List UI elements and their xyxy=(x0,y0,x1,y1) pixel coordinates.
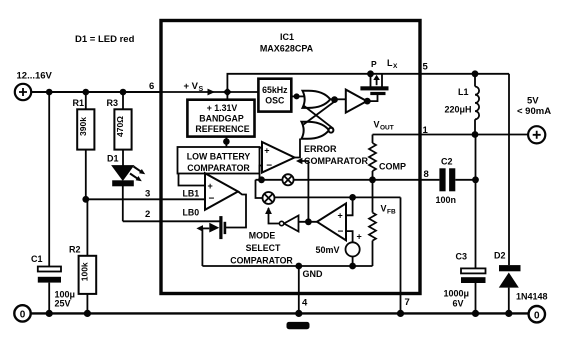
capacitor C3 1000u 6V electrolytic xyxy=(444,252,486,314)
Vout label xyxy=(374,120,394,132)
svg-text:ERROR: ERROR xyxy=(304,144,337,154)
svg-text:BANDGAP: BANDGAP xyxy=(199,114,244,124)
node junction C3 rail xyxy=(472,310,479,317)
bandgap reference box xyxy=(187,100,254,137)
resistor R2 100k xyxy=(69,199,96,313)
svg-text:SELECT: SELECT xyxy=(246,243,281,253)
svg-text:V: V xyxy=(374,120,380,130)
wire +Vs to OSC xyxy=(227,91,258,93)
svg-text:COMPARATOR: COMPARATOR xyxy=(304,156,368,166)
svg-text:D2: D2 xyxy=(494,251,506,261)
LED D1 xyxy=(107,154,134,222)
wire internal gnd bus xyxy=(202,265,372,267)
svg-text:4: 4 xyxy=(302,298,308,309)
inverter triangle (points left) xyxy=(279,216,298,232)
svg-text:7: 7 xyxy=(405,297,410,308)
resistor VFB divider lower xyxy=(369,213,376,266)
node junction COMP pin8 xyxy=(369,176,376,183)
node junction G1 output xyxy=(331,96,338,103)
wire minus node down to switch S2 xyxy=(256,180,263,198)
svg-text:+ V: + V xyxy=(184,81,199,92)
wire internal gnd to pin 4 xyxy=(298,266,300,313)
node junction buffer output xyxy=(364,98,371,105)
capacitor C2 100n xyxy=(421,157,476,206)
svg-text:+: + xyxy=(208,181,213,191)
svg-text:GND: GND xyxy=(303,269,324,279)
svg-text:C3: C3 xyxy=(456,252,468,262)
node junction inverter input xyxy=(305,218,312,225)
node junction OSC output xyxy=(294,93,300,99)
IC1 label xyxy=(260,32,314,54)
svg-text:X: X xyxy=(393,63,398,70)
wire Lx pin5 corner to D2 xyxy=(508,74,510,265)
wire FB pin 7 drop xyxy=(400,197,402,313)
wire OSC to gate G1 xyxy=(291,95,304,97)
svg-text:+: + xyxy=(357,232,362,242)
wire Vout branch down to C3 xyxy=(475,135,477,269)
switch S1 (circle-X) xyxy=(282,174,293,185)
node junction error minus xyxy=(258,176,265,183)
gate G1 top (SR latch) xyxy=(303,91,331,108)
svg-text:−: − xyxy=(209,194,215,205)
svg-text:IC1: IC1 xyxy=(280,32,294,42)
node junction P source xyxy=(367,70,374,77)
svg-text:+: + xyxy=(264,145,269,155)
svg-text:+: + xyxy=(338,210,343,220)
svg-text:220μH: 220μH xyxy=(445,105,472,115)
wire bandgap to low battery box xyxy=(225,137,227,147)
node junction C2 out xyxy=(472,176,479,183)
wire mode feedback to error comparator xyxy=(296,158,308,222)
svg-text:470Ω: 470Ω xyxy=(115,116,125,137)
wire mode + input from FB rail xyxy=(346,197,353,215)
wire error comparator - input link xyxy=(260,166,263,180)
svg-text:12...16V: 12...16V xyxy=(17,71,53,82)
svg-text:2: 2 xyxy=(145,209,150,220)
wire pin 2 net (LED cathode to LB0 gate) xyxy=(123,220,220,222)
wire ground rail xyxy=(31,312,529,314)
transistor Q2 P-MOSFET xyxy=(360,74,388,95)
node junction R1/R2/pin3 xyxy=(82,196,89,203)
svg-text:50mV: 50mV xyxy=(316,245,340,255)
svg-text:LB1: LB1 xyxy=(183,189,200,199)
source V1 50mV xyxy=(316,232,362,267)
svg-text:+ 1.31V: + 1.31V xyxy=(207,103,238,113)
note D1 = LED red xyxy=(75,34,135,45)
svg-text:25V: 25V xyxy=(55,299,71,309)
wire mode output to inverter xyxy=(299,221,318,223)
transistor Q1 LBO open-drain (gate bar, plate, source diode) xyxy=(196,216,226,266)
svg-text:LOW BATTERY: LOW BATTERY xyxy=(187,151,251,161)
svg-text:−: − xyxy=(266,161,272,172)
svg-text:0: 0 xyxy=(534,310,540,321)
wire C1 feed xyxy=(48,92,50,267)
wire G1 output to buffer xyxy=(330,98,346,100)
svg-text:FB: FB xyxy=(387,209,396,216)
wire +Vs to bandgap xyxy=(226,92,228,100)
node junction FB tap xyxy=(349,194,356,201)
svg-text:1N4148: 1N4148 xyxy=(516,292,548,302)
wire low battery box top to error comparator + input xyxy=(260,147,263,149)
svg-text:COMPARATOR: COMPARATOR xyxy=(187,163,250,173)
resistor comp divider upper xyxy=(369,135,376,181)
svg-text:D1 = LED red: D1 = LED red xyxy=(75,34,135,45)
svg-text:390k: 390k xyxy=(78,117,88,136)
svg-text:R3: R3 xyxy=(107,98,119,108)
wire Vout pin 1 xyxy=(373,134,529,136)
mode select comparator op-amp (points left) xyxy=(317,203,346,240)
wire cross couple G2 out to G1 in xyxy=(304,106,334,129)
node junction gnd bus xyxy=(295,263,302,270)
svg-text:LB0: LB0 xyxy=(183,208,200,218)
svg-text:L1: L1 xyxy=(458,87,469,97)
svg-text:COMPARATOR: COMPARATOR xyxy=(230,256,293,266)
svg-text:6V: 6V xyxy=(453,299,464,309)
error comparator op-amp xyxy=(262,142,295,173)
svg-text:MODE: MODE xyxy=(249,231,276,241)
diode D2 1N4148 xyxy=(494,251,548,314)
node junction L1 top xyxy=(472,70,479,77)
svg-text:1000μ: 1000μ xyxy=(444,289,470,299)
wire pin 3 net (R1/R2 to LB1) xyxy=(86,198,205,200)
VFB label xyxy=(381,204,396,216)
node junction L1 bottom xyxy=(472,131,479,138)
svg-text:65kHz: 65kHz xyxy=(262,85,288,95)
wire inverter to S2 with arrow xyxy=(265,207,279,224)
svg-text:8: 8 xyxy=(424,169,429,180)
wire mode - input to 50mV source xyxy=(346,231,353,242)
buffer driver triangle xyxy=(346,90,367,113)
switch S2 (circle-X) xyxy=(263,192,275,204)
svg-text:MAX628CPA: MAX628CPA xyxy=(260,44,314,54)
inductor L1 220uH xyxy=(445,74,480,135)
wire +Vs riser and top rail to pin 5 xyxy=(227,74,509,92)
svg-text:3: 3 xyxy=(145,189,150,200)
node junction pin4 rail xyxy=(295,310,302,317)
svg-text:P: P xyxy=(371,59,377,69)
node junction R1 tap xyxy=(83,89,90,96)
capacitor C1 100u 25V electrolytic xyxy=(31,254,75,313)
wire cross couple G1 out to G2 in xyxy=(304,102,335,125)
wire +Vs entry arrow xyxy=(161,81,227,95)
Lx label xyxy=(387,58,398,70)
node junction pin7 rail xyxy=(397,310,404,317)
svg-text:100k: 100k xyxy=(79,262,89,281)
terminal input + 12...16V xyxy=(15,71,53,101)
node junction R3 tap xyxy=(120,89,127,96)
error comparator label xyxy=(304,144,368,166)
svg-text:S: S xyxy=(199,86,204,93)
svg-text:C1: C1 xyxy=(31,254,43,264)
node junction C1/rail xyxy=(46,310,53,317)
wire COMP vertical link xyxy=(372,180,374,213)
terminal 0V right xyxy=(529,306,545,322)
wire LB comparator output to LBO drain xyxy=(226,192,246,228)
svg-text:R2: R2 xyxy=(69,245,81,255)
node +Vs junction xyxy=(223,88,231,96)
svg-text:6: 6 xyxy=(149,81,154,92)
svg-text:OSC: OSC xyxy=(265,95,285,105)
resistor R1 390k xyxy=(73,92,95,199)
mode select comparator label xyxy=(230,231,293,266)
wire error comparator minus node to switch S1 xyxy=(256,179,283,181)
svg-text:V: V xyxy=(381,204,387,214)
svg-text:D1: D1 xyxy=(107,154,119,164)
terminal 0V left xyxy=(14,305,30,321)
ground symbol xyxy=(287,322,310,329)
svg-text:5: 5 xyxy=(423,62,429,73)
low battery comparator label box xyxy=(178,147,260,174)
svg-text:1: 1 xyxy=(423,125,429,136)
LED D1 emission arrows xyxy=(130,167,145,182)
node junction bandgap drop xyxy=(223,138,230,145)
svg-text:REFERENCE: REFERENCE xyxy=(195,124,249,134)
oscillator box 65kHz OSC xyxy=(258,79,291,112)
svg-text:100n: 100n xyxy=(436,195,457,205)
svg-text:0: 0 xyxy=(20,310,26,321)
terminal output + 5V xyxy=(517,96,551,144)
svg-text:OUT: OUT xyxy=(380,125,394,132)
wire +V input rail to pin 6 xyxy=(31,91,161,93)
svg-text:COMP: COMP xyxy=(379,162,406,172)
op-amp LB comparator xyxy=(183,173,239,217)
wire S1 to COMP pin8 rail xyxy=(294,179,421,181)
svg-text:R1: R1 xyxy=(73,98,85,108)
node junction 50mV gnd xyxy=(349,263,356,270)
node junction R2/rail xyxy=(84,310,91,317)
node junction D2 rail xyxy=(505,310,512,317)
wire S2 to FB rail xyxy=(275,196,401,198)
IC U1 box MAX628CPA xyxy=(161,21,420,294)
svg-text:C2: C2 xyxy=(441,157,453,167)
gate G2 bottom NOR (SR latch) xyxy=(302,122,334,139)
svg-text:< 90mA: < 90mA xyxy=(517,106,551,117)
svg-text:−: − xyxy=(338,226,344,237)
node junction C1 tap xyxy=(46,89,53,96)
wire error comparator output to gate xyxy=(295,139,301,158)
resistor R3 470R xyxy=(107,92,132,166)
wire buffer to MOSFET gate xyxy=(367,95,377,101)
wire LB comparator + input from box xyxy=(179,174,206,186)
